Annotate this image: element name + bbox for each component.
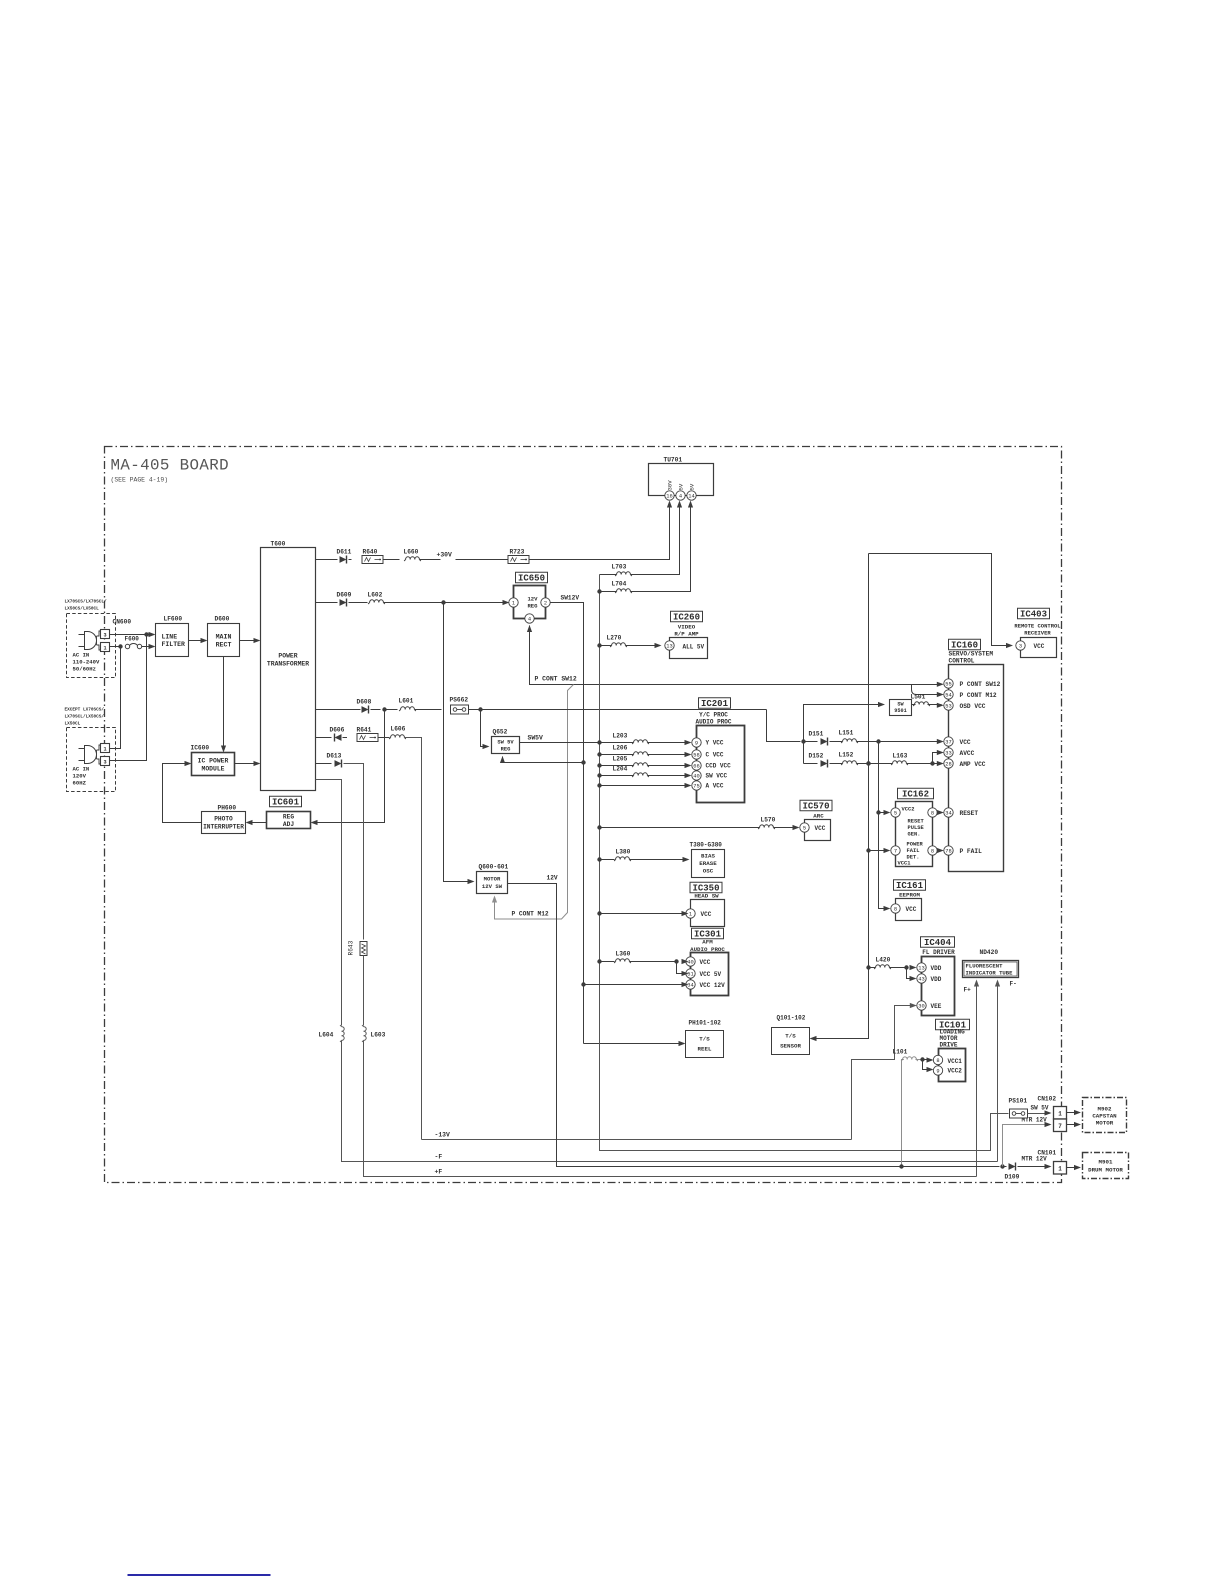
svg-text:T/S: T/S [699, 1036, 710, 1043]
svg-text:VCC: VCC [701, 911, 712, 918]
svg-text:MOTOR: MOTOR [484, 876, 501, 883]
IC650 pin 4 [525, 614, 534, 623]
wire VDD elbow to pin 43 [907, 968, 915, 979]
wire L704 line [597, 589, 601, 593]
wire L606 down to -13V rail [405, 738, 422, 1140]
svg-text:+F: +F [435, 1169, 443, 1176]
svg-text:D608: D608 [357, 699, 372, 706]
svg-text:IC650: IC650 [518, 574, 545, 584]
wire pin1 to fuse [110, 646, 123, 648]
wire R723 to TU701 pin 16 [529, 503, 670, 560]
wire IC350 vcc feed [597, 911, 601, 915]
svg-text:M902: M902 [1098, 1106, 1112, 1113]
svg-text:CONTROL: CONTROL [949, 658, 975, 665]
svg-text:L606: L606 [391, 726, 406, 733]
svg-text:F600: F600 [125, 636, 140, 643]
svg-text:OSD VCC: OSD VCC [960, 703, 986, 710]
IC101 pin 9 [933, 1066, 942, 1075]
svg-text:SW 5V: SW 5V [1031, 1105, 1049, 1112]
block bias erase osc [692, 850, 725, 878]
block Q600-601 motor 12V switch [477, 872, 508, 894]
svg-text:L360: L360 [616, 951, 631, 958]
svg-text:SW5V: SW5V [528, 735, 544, 742]
svg-text:9: 9 [695, 740, 698, 746]
svg-text:13: 13 [918, 965, 924, 971]
svg-text:SERVO/SYSTEM: SERVO/SYSTEM [949, 651, 994, 658]
IC404 pin 30 [917, 1001, 926, 1010]
svg-text:VCC1: VCC1 [898, 861, 911, 867]
IC160 pin 37 [944, 737, 953, 746]
svg-text:120V: 120V [73, 773, 87, 780]
svg-text:L151: L151 [839, 730, 854, 737]
IC162 pin 7 [891, 846, 900, 855]
svg-text:14: 14 [688, 493, 694, 499]
IC301 pin 51 [686, 969, 695, 978]
svg-text:PH101-102: PH101-102 [689, 1020, 722, 1027]
svg-text:LX50CS/LX50CL: LX50CS/LX50CL [65, 607, 100, 612]
IC650 pin 2 [541, 598, 550, 607]
wire L604 to -F rail [342, 1041, 998, 1162]
IC201 pin 9 [692, 738, 701, 747]
block IC160 servo system control [949, 665, 1004, 872]
svg-text:MA-405 BOARD: MA-405 BOARD [111, 457, 230, 475]
block IC404 fl driver [922, 957, 955, 1016]
IC301 pin 40 [686, 957, 695, 966]
svg-text:1: 1 [512, 600, 515, 606]
svg-text:P CONT M12: P CONT M12 [960, 692, 997, 699]
svg-text:D600: D600 [215, 616, 230, 623]
wire L420 line [869, 967, 876, 969]
label IC101 [936, 1019, 970, 1030]
wire IC162 pin7 feed [869, 850, 889, 852]
IC404 pin 43 [917, 974, 926, 983]
svg-text:IC162: IC162 [902, 790, 929, 800]
wire reg adj to photo interrupter [248, 822, 267, 824]
svg-text:VCC1: VCC1 [948, 1058, 963, 1065]
IC403 pin 3 [1016, 641, 1025, 650]
svg-text:-13V: -13V [435, 1132, 451, 1139]
svg-text:P CONT SW12: P CONT SW12 [960, 681, 1001, 688]
svg-text:AVCC: AVCC [960, 750, 975, 757]
svg-text:ALL 5V: ALL 5V [683, 644, 705, 651]
svg-text:L660: L660 [404, 549, 419, 556]
svg-text:MTR 12V: MTR 12V [1022, 1156, 1048, 1163]
svg-text:L603: L603 [371, 1032, 386, 1039]
IC160 pin 54 [944, 690, 953, 699]
IC101 pin 8 [933, 1055, 942, 1064]
label IC301 [692, 928, 724, 939]
wire L206 line [597, 752, 601, 756]
wire SW5V output to distribution rail [520, 742, 600, 744]
svg-text:D606: D606 [330, 727, 345, 734]
wire +F up to fluorescent tube [976, 982, 978, 1177]
svg-text:28: 28 [945, 761, 951, 767]
svg-text:IC601: IC601 [272, 798, 300, 808]
svg-text:IC161: IC161 [896, 881, 924, 891]
wire SW12V to T/S reel [584, 1043, 684, 1045]
svg-text:3: 3 [103, 760, 106, 766]
wire L602 node down to motor switch [444, 603, 473, 882]
svg-text:D609: D609 [337, 592, 352, 599]
wire corner down to D151 node [767, 710, 801, 742]
svg-text:Q652: Q652 [493, 729, 508, 736]
svg-text:54: 54 [945, 692, 951, 698]
block IC161 eeprom [896, 899, 922, 921]
AC IN 120V dashed box [67, 728, 116, 792]
IC201 pin 66 [692, 761, 701, 770]
TU701 pin 16 [665, 491, 674, 500]
wire line filter to main rect [189, 640, 206, 642]
svg-text:9501: 9501 [894, 708, 906, 714]
svg-text:75: 75 [693, 783, 699, 789]
svg-text:M901: M901 [1099, 1159, 1113, 1166]
connector CN101 pin 1 [1054, 1162, 1067, 1175]
svg-text:TU701: TU701 [664, 457, 683, 464]
svg-text:R641: R641 [357, 727, 372, 734]
TU701 pin 14 [687, 491, 696, 500]
svg-text:L703: L703 [612, 564, 627, 571]
svg-text:LX50CL: LX50CL [65, 722, 81, 727]
board outline MA-405 dash-dot border [105, 447, 1062, 1183]
wire D609 line from transformer [316, 602, 338, 604]
IC404 pin 13 [917, 963, 926, 972]
IC160 pin 33 [944, 748, 953, 757]
svg-text:Y/C PROC: Y/C PROC [699, 712, 728, 719]
svg-text:CN101: CN101 [1038, 1150, 1057, 1157]
wire SW5V rail vertical [600, 575, 1009, 1151]
svg-text:DRIVE: DRIVE [940, 1042, 958, 1049]
svg-text:LF600: LF600 [164, 616, 183, 623]
wire branch to IC160 pin 54 [912, 685, 942, 695]
wire branch down to SW5V reg input [481, 710, 488, 747]
svg-text:IC570: IC570 [802, 802, 829, 812]
connector CN600 pin 3 [101, 630, 110, 639]
block T/S sensor [772, 1028, 810, 1055]
svg-text:T/S: T/S [785, 1033, 796, 1040]
svg-text:55: 55 [945, 681, 951, 687]
svg-text:FLUORESCENT: FLUORESCENT [966, 963, 1004, 970]
block M902 capstan motor [1083, 1098, 1127, 1133]
svg-text:VCC 5V: VCC 5V [700, 971, 722, 978]
AC plug 110-240V [79, 634, 85, 636]
wire CN102 pin7 to capstan motor [1067, 1124, 1079, 1126]
wire L203 line SW5V to pin9 [597, 740, 601, 744]
svg-text:VDD: VDD [931, 976, 942, 983]
svg-text:IC260: IC260 [673, 613, 700, 623]
IC570 pin 5 [800, 823, 809, 832]
wire L101 to IC101 VCC1 [923, 1059, 932, 1061]
svg-text:REMOTE CONTROL: REMOTE CONTROL [1014, 623, 1061, 630]
svg-text:REG: REG [501, 747, 511, 753]
svg-text:PS101: PS101 [1009, 1098, 1028, 1105]
svg-text:D613: D613 [327, 753, 342, 760]
svg-text:1: 1 [103, 646, 106, 652]
wire CN101 pin1 to drum motor [1067, 1167, 1079, 1169]
block M901 drum motor [1083, 1153, 1129, 1179]
svg-text:L602: L602 [368, 592, 383, 599]
wire main rect down to IC power module [223, 657, 225, 751]
svg-text:L203: L203 [613, 733, 628, 740]
IC162 pin 5 [891, 808, 900, 817]
svg-text:INTERRUPTER: INTERRUPTER [203, 824, 244, 831]
block IC201 y/c proc audio proc [697, 726, 745, 803]
wire D608 line from transformer [316, 709, 361, 711]
svg-text:1: 1 [1058, 1166, 1062, 1173]
svg-text:MAIN: MAIN [216, 634, 232, 641]
AC plug 120V [79, 748, 85, 750]
block T/S reel [686, 1031, 724, 1058]
svg-text:ARC: ARC [813, 813, 824, 820]
label IC650 [516, 572, 548, 583]
wire VCC 12V feed from SW12V [581, 982, 585, 986]
svg-text:PHOTO: PHOTO [214, 816, 233, 823]
svg-text:13: 13 [666, 643, 672, 649]
svg-text:1: 1 [1058, 1111, 1062, 1118]
svg-text:9: 9 [936, 1068, 939, 1074]
svg-text:A VCC: A VCC [706, 783, 724, 790]
svg-text:33: 33 [945, 750, 951, 756]
wire branch to SW 9501 [804, 705, 883, 742]
wire fuse to line filter [142, 646, 154, 648]
wire L204 line [597, 773, 601, 777]
label IC404 [921, 937, 955, 948]
svg-text:FAIL: FAIL [907, 848, 920, 854]
wire IC162 pin8b to P FAIL [937, 850, 941, 852]
block IC260 video r/p amp [670, 638, 708, 659]
label IC601 [270, 796, 302, 807]
wire lower pin1 up to fuse node [110, 647, 121, 749]
wire VCC1 top to IC403 [869, 554, 1011, 646]
wire transformer bottom to L604 [316, 780, 342, 1026]
svg-text:DRUM MOTOR: DRUM MOTOR [1088, 1167, 1123, 1174]
svg-text:7: 7 [1058, 1123, 1062, 1130]
wire pin3 to line filter [110, 634, 154, 636]
svg-text:PH600: PH600 [218, 805, 237, 812]
IC201 pin 58 [692, 750, 701, 759]
svg-text:GEN.: GEN. [908, 832, 921, 838]
svg-text:T380-G380: T380-G380 [690, 842, 723, 849]
IC160 pin 53 [944, 701, 953, 710]
svg-text:1: 1 [103, 747, 106, 753]
svg-text:SW12V: SW12V [561, 595, 580, 602]
svg-text:VCC 12V: VCC 12V [700, 982, 726, 989]
wire L360 line [597, 959, 601, 963]
svg-text:AUDIO PROC: AUDIO PROC [695, 719, 731, 726]
wire L270 line [597, 643, 601, 647]
svg-text:R723: R723 [510, 549, 525, 556]
svg-text:4: 4 [679, 493, 682, 499]
svg-text:L206: L206 [613, 745, 628, 752]
IC201 pin 75 [692, 781, 701, 790]
svg-text:ADJ: ADJ [283, 821, 294, 828]
svg-text:2: 2 [544, 600, 547, 606]
IC350 pin 1 [686, 909, 695, 918]
svg-text:16: 16 [666, 493, 672, 499]
svg-text:AC IN: AC IN [73, 766, 90, 773]
svg-text:BIAS: BIAS [701, 853, 715, 860]
IC650 pin 1 [509, 598, 518, 607]
svg-text:L270: L270 [607, 635, 622, 642]
svg-text:F-: F- [1010, 981, 1017, 988]
svg-text:TRANSFORMER: TRANSFORMER [267, 661, 309, 668]
IC160 pin 78 [944, 846, 953, 855]
svg-text:51: 51 [687, 971, 693, 977]
block IC403 remote control receiver [1021, 638, 1057, 658]
svg-text:30: 30 [918, 1003, 924, 1009]
svg-text:SENSOR: SENSOR [780, 1043, 801, 1050]
wire D152 branch [803, 742, 805, 764]
IC160 pin 55 [944, 679, 953, 688]
svg-text:L501: L501 [911, 694, 926, 701]
label IC201 [699, 698, 731, 709]
wire L101 to IC101 VCC2 [923, 1060, 932, 1070]
svg-text:PULSE: PULSE [908, 825, 925, 831]
AC IN 110-240V dashed box [67, 614, 116, 678]
svg-text:EXCEPT LX70SCS/: EXCEPT LX70SCS/ [65, 708, 105, 713]
svg-text:PS662: PS662 [450, 697, 469, 704]
wire VCC 5V elbow [677, 962, 687, 974]
wire D606 line from transformer [316, 737, 332, 739]
IC162 pin 8 top [928, 808, 937, 817]
svg-text:VCC2: VCC2 [948, 1068, 963, 1075]
svg-text:P CONT SW12: P CONT SW12 [535, 676, 577, 683]
svg-text:3: 3 [103, 633, 106, 639]
svg-text:8: 8 [894, 906, 897, 912]
IC301 pin 34 [686, 980, 695, 989]
svg-text:IC404: IC404 [924, 938, 952, 948]
svg-text:5: 5 [894, 810, 897, 816]
block IC601 reg adj [267, 812, 311, 829]
wire MTR 12V rail to CN102 pin 7 [1003, 1125, 1050, 1167]
svg-text:SW VCC: SW VCC [706, 773, 728, 780]
IC160 pin 34 [944, 808, 953, 817]
svg-text:8: 8 [931, 848, 934, 854]
svg-text:VCC: VCC [700, 959, 711, 966]
svg-text:REG: REG [527, 603, 538, 610]
svg-text:L601: L601 [399, 698, 414, 705]
wire IC power module to transformer [235, 763, 259, 765]
svg-text:66: 66 [693, 763, 699, 769]
wire A VCC line [597, 783, 601, 787]
svg-text:D151: D151 [809, 731, 824, 738]
svg-text:-F: -F [435, 1154, 443, 1161]
svg-text:Y VCC: Y VCC [706, 740, 724, 747]
svg-text:110-240V: 110-240V [73, 659, 100, 666]
svg-text:CCD VCC: CCD VCC [706, 763, 732, 770]
footer link line [128, 1574, 271, 1576]
wire P CONT SW12 from IC650 pin 4 [527, 625, 532, 632]
svg-text:43: 43 [918, 976, 924, 982]
svg-text:INDICATOR TUBE: INDICATOR TUBE [966, 970, 1014, 977]
svg-text:8: 8 [936, 1058, 939, 1064]
svg-text:REG: REG [283, 814, 294, 821]
wire D613 line from transformer [316, 763, 332, 765]
svg-text:53: 53 [945, 703, 951, 709]
svg-text:VCC2: VCC2 [902, 807, 915, 813]
svg-text:SW: SW [897, 702, 904, 708]
svg-text:CAPSTAN: CAPSTAN [1092, 1113, 1117, 1120]
wire main rect to transformer [240, 640, 259, 642]
svg-text:ERASE: ERASE [699, 860, 717, 867]
svg-text:F+: F+ [964, 987, 972, 994]
svg-text:37: 37 [945, 739, 951, 745]
svg-text:12V SW: 12V SW [482, 883, 503, 890]
svg-text:CN600: CN600 [113, 619, 132, 626]
svg-text:50/60Hz: 50/60Hz [73, 666, 97, 673]
svg-text:RECT: RECT [216, 642, 232, 649]
svg-text:L205: L205 [613, 756, 628, 763]
svg-text:LX70SCL/LX50CS/: LX70SCL/LX50CS/ [65, 715, 105, 720]
svg-text:HEAD SW: HEAD SW [694, 893, 719, 900]
svg-text:RESET: RESET [908, 819, 925, 825]
wire +30V line from transformer [316, 559, 338, 561]
svg-text:AMP VCC: AMP VCC [960, 761, 986, 768]
label IC161 [894, 880, 926, 891]
svg-text:+30V: +30V [437, 552, 453, 559]
IC260 pin 13 [665, 641, 674, 650]
block IC162 reset pulse gen [896, 802, 933, 867]
svg-text:L604: L604 [319, 1032, 334, 1039]
svg-text:5: 5 [803, 825, 806, 831]
block ND420 fluorescent indicator tube [963, 961, 1019, 978]
svg-text:40: 40 [693, 773, 699, 779]
block IC350 head sw [691, 900, 725, 927]
svg-text:VDD: VDD [931, 965, 942, 972]
svg-text:IC160: IC160 [951, 641, 978, 651]
svg-text:34: 34 [945, 810, 951, 816]
connector CN102 pin 1 [1054, 1107, 1067, 1120]
svg-text:POWER: POWER [278, 653, 297, 660]
block IC570 arc [805, 820, 831, 841]
svg-text:R643: R643 [348, 940, 355, 955]
connector CN102 pin 7 [1054, 1119, 1067, 1132]
IC162 pin 8 bottom [928, 846, 937, 855]
svg-text:VCC: VCC [960, 739, 971, 746]
svg-text:8: 8 [931, 810, 934, 816]
svg-text:1: 1 [689, 911, 692, 917]
svg-text:CN102: CN102 [1038, 1096, 1057, 1103]
IC160 pin 28 [944, 759, 953, 768]
wire L570 line [597, 825, 601, 829]
svg-text:P CONT M12: P CONT M12 [512, 911, 549, 918]
svg-text:(SEE PAGE 4-19): (SEE PAGE 4-19) [111, 477, 169, 484]
block SW 9501 [890, 700, 912, 716]
svg-text:D109: D109 [1005, 1174, 1020, 1181]
svg-text:SW 5V: SW 5V [497, 740, 514, 746]
wire L603 to +F rail [364, 1041, 977, 1177]
svg-text:30V: 30V [667, 480, 674, 491]
wire -13V up to VEE and L101 corner [852, 1006, 915, 1140]
label IC570 [800, 800, 832, 811]
wire P CONT M12 branch jog [495, 685, 574, 920]
svg-text:5V: 5V [689, 483, 696, 490]
svg-text:78: 78 [945, 848, 951, 854]
label IC160 [949, 639, 981, 650]
svg-text:IC201: IC201 [701, 699, 729, 709]
svg-text:MOTOR: MOTOR [1096, 1120, 1114, 1127]
svg-text:L570: L570 [761, 817, 776, 824]
label IC403 [1018, 608, 1050, 619]
wire photo interrupter feedback to IC power module [163, 764, 202, 823]
svg-text:L152: L152 [839, 752, 854, 759]
wire L380 line [597, 857, 601, 861]
wire D613 down +F rail [344, 764, 364, 940]
wire AVCC elbow to pin 33 [933, 753, 942, 764]
svg-text:5V: 5V [678, 483, 685, 490]
wire SW12V from IC650 pin 2 down [550, 603, 583, 1044]
svg-text:L704: L704 [612, 581, 627, 588]
svg-text:RESET: RESET [960, 810, 979, 817]
